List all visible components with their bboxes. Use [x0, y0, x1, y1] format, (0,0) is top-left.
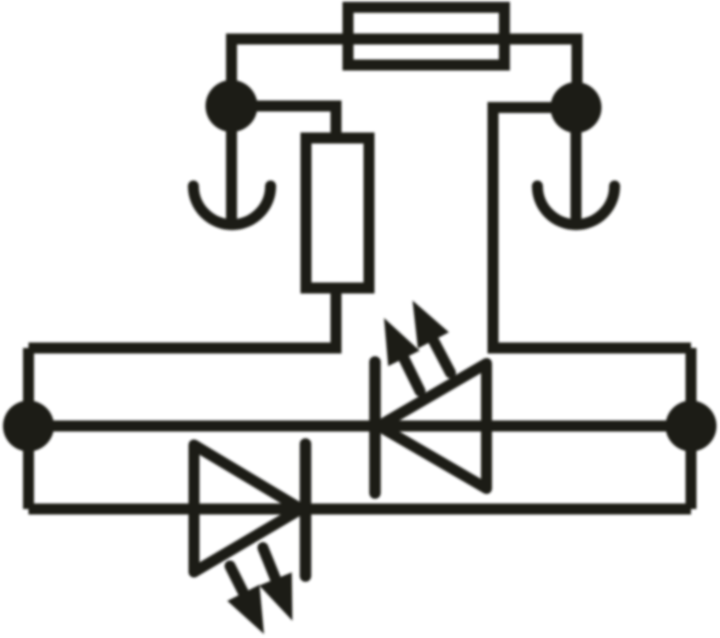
LED D1 cathode bar — [369, 362, 381, 493]
LED D1 triangle — [379, 364, 487, 489]
junction dot top-left — [206, 80, 258, 132]
test tap left arc — [193, 186, 270, 225]
LED D1 arrow 2 — [413, 301, 451, 373]
wire left dot to resistor top — [232, 106, 337, 140]
junction dot bottom-left — [3, 401, 54, 452]
LED D1 arrow 1 — [384, 318, 420, 391]
wire main horizontal line — [29, 421, 692, 432]
junction dot top-right — [551, 82, 602, 133]
wire right dot down to right bus — [493, 108, 691, 349]
LED D2 cathode bar — [300, 444, 312, 576]
test tap left stub — [226, 106, 237, 218]
junction dot bottom-right — [666, 401, 717, 452]
wire lower horizontal line — [29, 504, 692, 515]
LED D2 triangle — [194, 445, 301, 572]
wire top bus with corner drops — [232, 39, 578, 108]
LED D2 arrow 2 — [259, 548, 292, 621]
wire right bus vertical — [686, 348, 697, 509]
wire resistor bottom to left bus — [29, 286, 337, 348]
resistor R1 — [306, 138, 369, 288]
test tap right arc — [537, 186, 614, 225]
LED D2 arrow 1 — [227, 566, 264, 634]
fuse F1 — [348, 7, 504, 65]
test tap right stub — [571, 108, 582, 219]
wire left bus vertical — [23, 348, 34, 509]
